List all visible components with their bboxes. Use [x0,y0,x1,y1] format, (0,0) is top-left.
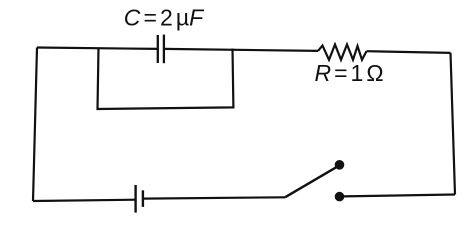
svg-text:C = 2 µF: C = 2 µF [124,4,205,30]
svg-text:R = 1 Ω: R = 1 Ω [315,60,384,86]
